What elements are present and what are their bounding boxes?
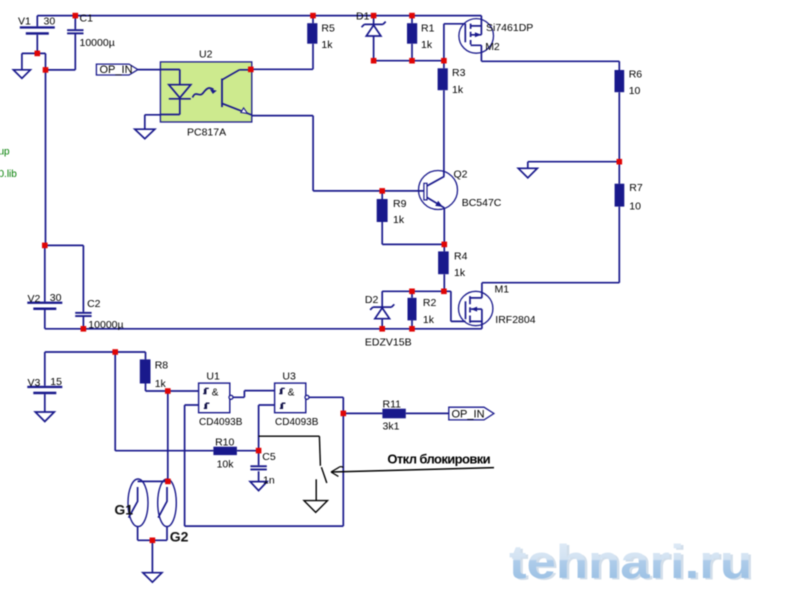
svg-text:V2: V2 [28, 293, 41, 305]
svg-text:M1: M1 [495, 284, 510, 296]
svg-text:R1: R1 [421, 23, 435, 35]
svg-text:10k: 10k [217, 458, 235, 470]
svg-text:1k: 1k [393, 214, 405, 226]
svg-text:V3: V3 [28, 377, 41, 389]
svg-text:30: 30 [44, 16, 56, 28]
svg-text:R10: R10 [215, 436, 234, 448]
svg-text:10000µ: 10000µ [88, 319, 123, 331]
svg-text:R5: R5 [321, 23, 335, 35]
svg-text:10: 10 [629, 201, 641, 213]
svg-text:R9: R9 [393, 198, 407, 210]
svg-text:10: 10 [629, 85, 641, 97]
svg-text:PC817A: PC817A [187, 127, 226, 139]
svg-text:1k: 1k [155, 378, 167, 390]
svg-text:V1: V1 [18, 16, 31, 28]
svg-text:U2: U2 [199, 49, 213, 61]
svg-text:C5: C5 [262, 451, 276, 463]
svg-text:R6: R6 [629, 69, 643, 81]
svg-text:&: & [212, 387, 219, 398]
svg-text:1k: 1k [423, 314, 435, 326]
svg-text:R3: R3 [452, 67, 466, 79]
svg-text:CD4093B: CD4093B [275, 417, 319, 428]
svg-text:U1: U1 [206, 370, 220, 382]
svg-text:R7: R7 [629, 182, 643, 194]
svg-text:D1: D1 [356, 10, 370, 22]
svg-text:BC547C: BC547C [462, 197, 502, 209]
svg-text:R11: R11 [383, 399, 402, 411]
svg-text:M2: M2 [485, 41, 500, 53]
svg-text:up: up [0, 147, 10, 158]
svg-text:1k: 1k [454, 267, 466, 279]
svg-text:CD4093B: CD4093B [199, 417, 243, 428]
svg-text:IRF2804: IRF2804 [495, 314, 535, 326]
svg-text:OP_IN: OP_IN [452, 409, 485, 421]
svg-text:30: 30 [50, 292, 62, 304]
svg-text:C2: C2 [87, 298, 101, 310]
svg-text:&: & [288, 387, 295, 398]
svg-text:3k1: 3k1 [383, 421, 400, 433]
svg-text:1k: 1k [321, 39, 333, 51]
svg-text:tehnari.ru: tehnari.ru [509, 536, 752, 589]
svg-text:15: 15 [50, 376, 62, 388]
svg-text:R4: R4 [454, 250, 468, 262]
svg-text:Q2: Q2 [454, 168, 468, 180]
svg-text:R2: R2 [423, 297, 437, 309]
svg-text:EDZV15B: EDZV15B [365, 337, 412, 349]
svg-text:1k: 1k [452, 84, 464, 96]
svg-text:1n: 1n [263, 475, 275, 487]
svg-text:10000µ: 10000µ [80, 37, 115, 49]
svg-text:R8: R8 [155, 360, 169, 372]
svg-text:Si7461DP: Si7461DP [486, 22, 533, 34]
svg-text:D2: D2 [365, 294, 379, 306]
svg-text:1k: 1k [421, 39, 433, 51]
svg-text:C1: C1 [80, 12, 94, 24]
svg-text:G1: G1 [114, 502, 133, 518]
svg-text:U3: U3 [282, 370, 296, 382]
svg-text:Откл блокировки: Откл блокировки [387, 452, 490, 467]
svg-text:OP_IN: OP_IN [100, 64, 133, 76]
svg-text:0.lib: 0.lib [0, 169, 17, 180]
svg-text:G2: G2 [170, 528, 189, 544]
